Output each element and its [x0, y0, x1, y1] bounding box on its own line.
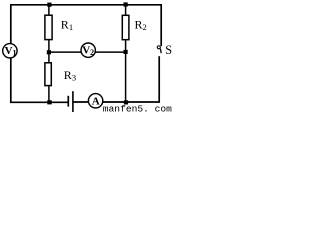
svg-text:S: S: [165, 43, 172, 57]
wire left border: [10, 5, 12, 103]
junction dot bottom-right: [124, 100, 128, 104]
junction dot top-right: [124, 2, 128, 6]
ammeter A: [88, 94, 102, 108]
switch S: [157, 46, 161, 53]
wire top: [10, 4, 162, 6]
resistor R2: [122, 15, 129, 39]
svg-text:manfen5. com: manfen5. com: [103, 103, 172, 112]
resistor R1: [45, 15, 52, 39]
wire right border upper: [160, 5, 162, 46]
voltmeter V2: [81, 43, 95, 57]
wire R2 branch: [125, 5, 127, 103]
resistor R3: [45, 63, 51, 86]
junction dot bottom-left: [47, 100, 51, 104]
wire middle row: [49, 51, 126, 53]
wire bottom left: [10, 101, 68, 103]
voltmeter V1: [3, 44, 17, 58]
wire right border lower: [158, 56, 160, 102]
junction dot mid-left: [47, 50, 51, 54]
battery: [68, 91, 73, 113]
wire bottom right: [73, 101, 160, 103]
junction dot mid-right: [124, 50, 128, 54]
junction dot top-left: [47, 3, 51, 7]
svg-text:A: A: [92, 96, 100, 108]
wire R1-R3 branch: [48, 5, 50, 103]
